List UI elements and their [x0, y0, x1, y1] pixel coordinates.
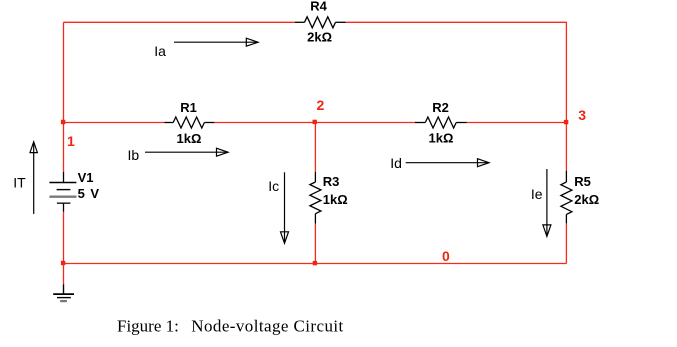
svg-text:Ic: Ic [268, 178, 279, 194]
svg-text:1kΩ: 1kΩ [323, 192, 348, 207]
junction node 2 [313, 120, 317, 124]
svg-text:0: 0 [442, 248, 450, 264]
current arrow Ie [543, 169, 551, 236]
resistor R3 [310, 172, 321, 224]
current arrow IT [30, 142, 37, 214]
resistor R1 [165, 117, 215, 128]
junction node 3 [564, 120, 568, 124]
wire left vertical top (node1 branch to top-left corner) [63, 22, 65, 172]
svg-text:R5: R5 [574, 174, 591, 189]
battery V1 [49, 172, 76, 212]
svg-text:5 V: 5 V [78, 186, 101, 201]
svg-text:Ib: Ib [128, 147, 140, 163]
wire middle segment R2 to node 3 [467, 122, 567, 124]
svg-text:1kΩ: 1kΩ [429, 130, 454, 145]
ground [53, 284, 74, 301]
wire R3 branch lower [314, 224, 316, 264]
svg-text:3: 3 [578, 107, 586, 123]
resistor R2 [415, 117, 467, 128]
svg-text:R4: R4 [310, 0, 327, 13]
svg-text:Node-voltage Circuit: Node-voltage Circuit [191, 317, 343, 336]
wire middle segment node1 to R1 [64, 122, 165, 124]
svg-text:R2: R2 [432, 100, 449, 115]
wire R3 branch upper [314, 123, 316, 173]
wire right vertical upper [565, 22, 567, 171]
svg-text:IT: IT [13, 174, 26, 190]
resistor R4 [295, 17, 346, 28]
wire right vertical lower [565, 223, 567, 263]
wire top left segment [64, 21, 295, 23]
svg-text:Ia: Ia [154, 43, 166, 59]
current arrow Ic [281, 172, 289, 243]
wire top right segment [346, 21, 567, 23]
svg-text:Figure 1:: Figure 1: [117, 317, 179, 336]
svg-text:V1: V1 [78, 170, 94, 185]
junction node 1 [61, 120, 65, 124]
svg-text:2: 2 [317, 97, 325, 113]
svg-text:2kΩ: 2kΩ [307, 30, 332, 45]
svg-text:R1: R1 [180, 100, 197, 115]
svg-text:Id: Id [390, 155, 402, 171]
wire battery bottom to ground [63, 212, 65, 284]
current arrow Id [406, 159, 489, 167]
current arrow Ib [145, 148, 228, 156]
svg-text:1kΩ: 1kΩ [177, 131, 202, 146]
wire middle segment R1 to R2 through node 2 [214, 122, 415, 124]
junction bottom R3 [313, 261, 317, 265]
junction bottom left [61, 261, 65, 265]
wire bottom (node 0) [64, 263, 567, 265]
svg-text:2kΩ: 2kΩ [574, 192, 599, 207]
svg-text:R3: R3 [323, 174, 340, 189]
resistor R5 [561, 171, 572, 223]
svg-text:Ie: Ie [531, 186, 543, 202]
current arrow Ia [174, 38, 258, 46]
svg-text:1: 1 [67, 133, 75, 149]
